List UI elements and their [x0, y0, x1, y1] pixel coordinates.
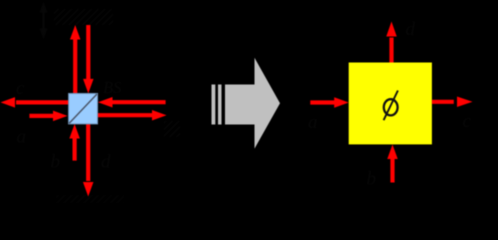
svg-text:d: d: [101, 152, 111, 173]
svg-text:d: d: [406, 19, 416, 40]
svg-text:b: b: [51, 152, 61, 173]
svg-text:b: b: [367, 169, 377, 190]
svg-text:c: c: [463, 111, 472, 132]
svg-text:c: c: [16, 78, 25, 99]
svg-text:a: a: [17, 127, 27, 148]
svg-text:BS: BS: [103, 78, 121, 97]
svg-text:a: a: [308, 112, 318, 133]
